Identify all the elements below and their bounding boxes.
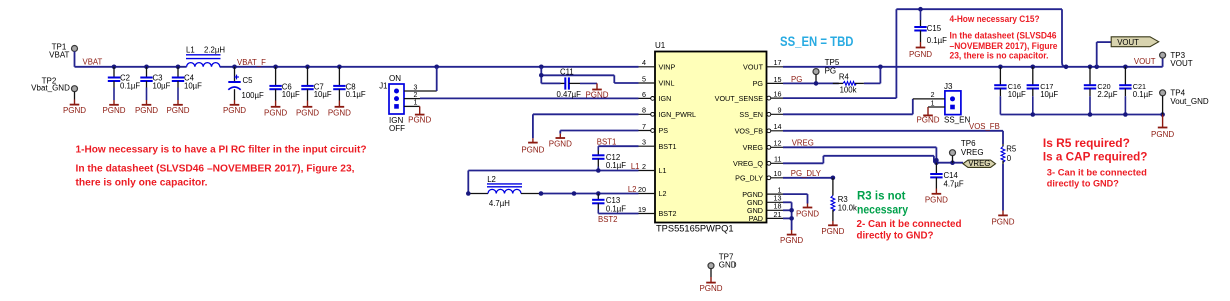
wire VBAT bus <box>75 66 639 68</box>
wire VOUT rail <box>783 66 1163 68</box>
resistor R4 100k <box>833 73 864 95</box>
svg-text:PGND: PGND <box>780 236 803 245</box>
svg-text:R5: R5 <box>1006 145 1017 154</box>
pin 16 VOUT_SENSE of U1 <box>715 90 783 103</box>
resistor R3 10.0k <box>831 178 857 221</box>
svg-text:In the datasheet (SLVSD46: In the datasheet (SLVSD46 <box>950 30 1057 41</box>
ground PGND (U1 pin1) <box>796 204 819 219</box>
svg-text:R3: R3 <box>838 195 848 204</box>
svg-text:VINL: VINL <box>659 79 675 88</box>
ground PGND (C11) <box>585 83 608 99</box>
ground PGND (C15) <box>909 42 932 59</box>
svg-text:L1: L1 <box>186 46 195 55</box>
svg-text:VREG: VREG <box>968 159 990 168</box>
note R5 questions <box>1043 137 1148 190</box>
svg-text:10: 10 <box>774 169 782 178</box>
capacitor C7 <box>301 67 332 101</box>
svg-text:Vout_GND: Vout_GND <box>1170 97 1208 106</box>
pin 17 VOUT of U1 <box>743 58 783 71</box>
svg-text:PGND: PGND <box>521 146 544 155</box>
wire VOS_FB net (U1 pin14) <box>783 122 1003 131</box>
svg-text:10µF: 10µF <box>282 90 300 99</box>
pin 14 VOS_FB of U1 <box>735 122 783 135</box>
wire U1 pin1 PGND <box>783 194 808 203</box>
pin 10 PG_DLY of U1 <box>735 169 783 182</box>
ground PGND (TP4) <box>1151 115 1174 139</box>
svg-text:L1: L1 <box>659 166 667 175</box>
resistor R5 0 <box>1001 131 1017 211</box>
svg-text:1: 1 <box>414 100 418 107</box>
svg-text:PG: PG <box>825 67 837 76</box>
svg-text:PGND: PGND <box>909 50 932 59</box>
pin 2 of J1 <box>404 92 420 99</box>
svg-text:2: 2 <box>642 162 646 171</box>
junction dots on L2 net <box>466 191 601 196</box>
test point TP6 <box>950 139 984 163</box>
svg-text:PG: PG <box>753 79 764 88</box>
svg-text:PS: PS <box>659 126 669 135</box>
inductor L1 2.2µH <box>186 46 225 67</box>
svg-text:BST2: BST2 <box>659 209 677 218</box>
svg-text:SS_EN: SS_EN <box>944 115 970 124</box>
svg-text:VBAT: VBAT <box>49 50 69 59</box>
svg-text:PGND: PGND <box>63 106 86 115</box>
note SS_EN = TBD <box>780 34 854 49</box>
wire PS (U1 pin7) <box>560 131 638 134</box>
svg-text:VOUT: VOUT <box>1117 38 1139 47</box>
net flag VREG <box>963 159 996 168</box>
svg-text:U1: U1 <box>655 41 666 50</box>
ground PGND (TP2) <box>63 100 86 116</box>
svg-text:C11: C11 <box>560 67 574 76</box>
wire TP1 to VBAT bus <box>74 51 76 67</box>
wire PG net (U1 pin15) <box>783 75 839 84</box>
connector J1 <box>379 74 405 133</box>
pin 7 PS of U1 <box>639 122 669 135</box>
svg-text:PG_DLY: PG_DLY <box>735 174 763 183</box>
svg-text:SS_EN: SS_EN <box>739 110 763 119</box>
capacitor C4 <box>172 67 202 100</box>
ground PGND (J1 pin1) <box>408 106 431 124</box>
svg-text:J3: J3 <box>944 82 953 91</box>
pin 6 IGN of U1 <box>639 90 672 103</box>
svg-text:SS_EN = TBD: SS_EN = TBD <box>780 34 854 49</box>
capacitor C15 0.1µF <box>914 9 947 45</box>
svg-text:ON: ON <box>389 74 401 83</box>
pin 4 VINP of U1 <box>639 58 676 71</box>
ground PGND (J3 pin1) <box>916 107 939 124</box>
svg-text:1-How necessary is to have a P: 1-How necessary is to have a PI RC filte… <box>76 144 367 155</box>
svg-text:R3 is not: R3 is not <box>857 189 906 203</box>
svg-text:PGND: PGND <box>699 284 722 293</box>
capacitor C21 0.1µF <box>1119 67 1153 115</box>
wire VREG net (U1 pin12) <box>783 138 936 162</box>
pin 2 of J3 <box>913 92 945 99</box>
svg-text:4.7µF: 4.7µF <box>944 179 964 188</box>
op-amp U1 TPS55165PWPQ1 (IC body) <box>655 41 767 233</box>
svg-text:VOUT: VOUT <box>1170 59 1192 68</box>
svg-text:TP6: TP6 <box>961 139 976 148</box>
svg-text:PGND: PGND <box>925 196 948 205</box>
svg-text:directly to GND?: directly to GND? <box>1047 179 1119 190</box>
svg-text:2- Can it be connected: 2- Can it be connected <box>857 219 962 230</box>
svg-text:VOS_FB: VOS_FB <box>969 122 1000 131</box>
svg-text:9: 9 <box>778 106 782 115</box>
pin 19 BST2 of U1 <box>638 205 676 218</box>
junction dots GND pins <box>789 208 794 221</box>
svg-text:PGND: PGND <box>585 90 608 99</box>
svg-text:Is R5 required?: Is R5 required? <box>1043 137 1130 150</box>
svg-text:VBAT: VBAT <box>83 58 103 67</box>
wire L2 net (U1 pin20) <box>541 185 639 194</box>
test point TP3 <box>1160 51 1193 68</box>
test point TP4 <box>1160 89 1209 115</box>
svg-text:100µF: 100µF <box>242 91 265 100</box>
svg-text:VOUT_SENSE: VOUT_SENSE <box>715 94 764 103</box>
test point TP7 <box>708 253 737 277</box>
capacitor C20 2.2µF <box>1084 67 1118 115</box>
svg-text:C5: C5 <box>243 76 254 85</box>
wire BST2 net (U1 pin19) <box>598 214 639 225</box>
pin 3 BST1 of U1 <box>639 138 677 151</box>
svg-text:PGND: PGND <box>102 106 125 115</box>
svg-text:PGND: PGND <box>796 209 819 218</box>
capacitor C8 <box>333 67 366 101</box>
svg-text:necessary: necessary <box>857 202 908 216</box>
svg-text:VBAT_F: VBAT_F <box>237 58 266 67</box>
svg-text:7: 7 <box>642 122 646 131</box>
capacitor C5 100µF (polarized) <box>228 67 264 100</box>
wire SS_EN net (U1 pin9) <box>783 99 913 114</box>
pin 1 of J1 <box>404 100 420 107</box>
wire R4 to VOUT <box>864 67 881 84</box>
svg-text:L2: L2 <box>659 189 667 198</box>
wire U1 GND/PAD pins (13,18,21) <box>783 202 792 230</box>
junction dots output ground rail <box>1031 112 1165 117</box>
svg-text:J1: J1 <box>379 82 387 91</box>
note 2 (R3 to GND) <box>857 219 962 242</box>
wire PG_DLY net (U1 pin10) <box>783 169 833 178</box>
pin 2 L1 of U1 <box>639 162 667 175</box>
svg-text:16: 16 <box>774 90 782 99</box>
svg-text:PGND: PGND <box>549 139 572 148</box>
svg-text:11: 11 <box>774 155 781 164</box>
svg-text:1: 1 <box>931 100 935 107</box>
svg-text:PGND: PGND <box>991 217 1014 226</box>
svg-text:4.7µH: 4.7µH <box>489 199 510 208</box>
svg-text:VREG: VREG <box>961 148 984 157</box>
svg-text:100k: 100k <box>840 85 857 94</box>
ground PGND (C7) <box>296 101 319 118</box>
wire output ground rail <box>1000 114 1162 116</box>
svg-text:PGND: PGND <box>916 115 939 124</box>
wire IGN net (J1 pin2 to U1 pin6) <box>420 97 639 99</box>
svg-text:20: 20 <box>638 185 646 194</box>
svg-text:3: 3 <box>414 84 418 91</box>
svg-text:IGN: IGN <box>659 94 672 103</box>
svg-text:10µF: 10µF <box>314 90 332 99</box>
svg-text:TP5: TP5 <box>825 58 840 67</box>
ground PGND (C4) <box>166 100 189 115</box>
ground PGND (TP7) <box>699 277 722 293</box>
capacitor C14 4.7µF <box>930 163 964 189</box>
wire BST1 net <box>597 138 639 147</box>
svg-text:21: 21 <box>774 210 782 219</box>
svg-text:4-How necessary C15?: 4-How necessary C15? <box>950 14 1040 25</box>
capacitor C16 10µF <box>994 67 1026 115</box>
ground PGND (C5) <box>223 100 246 115</box>
junction dots VREG node <box>934 158 955 165</box>
wire VOUT_SENSE (U1 pin16) <box>783 97 896 99</box>
svg-text:0: 0 <box>1007 154 1012 163</box>
svg-text:0.1µF: 0.1µF <box>606 204 626 213</box>
ground PGND (C6) <box>264 101 287 118</box>
node VOUT label <box>1134 57 1156 66</box>
wire VREG to flag <box>936 162 963 164</box>
svg-text:In the datasheet (SLVSD46 –NOV: In the datasheet (SLVSD46 –NOVEMBER 2017… <box>76 164 355 175</box>
svg-text:3: 3 <box>642 138 646 147</box>
svg-text:10.0k: 10.0k <box>838 204 857 213</box>
svg-text:0.1µF: 0.1µF <box>346 90 366 99</box>
svg-text:15: 15 <box>774 75 782 84</box>
test point TP2 <box>31 77 77 100</box>
svg-text:BST1: BST1 <box>597 138 617 147</box>
svg-text:0.1µF: 0.1µF <box>606 161 626 170</box>
svg-text:2.2µF: 2.2µF <box>1097 90 1117 99</box>
svg-text:0.1µF: 0.1µF <box>927 36 947 45</box>
svg-text:10µF: 10µF <box>1040 90 1058 99</box>
ground PGND (PS) <box>549 134 572 149</box>
svg-text:10µF: 10µF <box>184 82 202 91</box>
svg-text:PGND: PGND <box>408 116 431 125</box>
wire IGN_PWRL (U1 pin8) <box>533 114 639 138</box>
junction dots on VBAT bus <box>112 65 544 70</box>
svg-text:PGND: PGND <box>328 108 351 117</box>
net flag VOUT <box>1111 37 1159 47</box>
test point TP1 <box>49 43 77 60</box>
ground PGND (U1 GND/PAD) <box>780 230 803 245</box>
pin 18 GND of U1 <box>747 202 783 215</box>
svg-text:PG_DLY: PG_DLY <box>791 169 822 178</box>
node PG_DLY junction <box>831 176 836 181</box>
svg-text:19: 19 <box>638 205 646 214</box>
pin 1 PGND of U1 <box>742 186 783 199</box>
svg-text:PGND: PGND <box>223 106 246 115</box>
svg-text:2.2µH: 2.2µH <box>204 46 225 55</box>
capacitor C11 0.47µF <box>541 67 597 99</box>
svg-text:OFF: OFF <box>389 124 405 133</box>
svg-text:PGND: PGND <box>166 106 189 115</box>
svg-text:PGND: PGND <box>1151 130 1174 139</box>
pin 12 VREG of U1 <box>743 139 783 152</box>
note 4 (C15) <box>950 14 1058 62</box>
svg-text:PAD: PAD <box>749 214 763 223</box>
connector J3 <box>944 82 970 125</box>
svg-text:TPS55165PWPQ1: TPS55165PWPQ1 <box>656 224 734 234</box>
pin 20 L2 of U1 <box>638 185 667 198</box>
svg-text:C15: C15 <box>927 24 942 33</box>
capacitor C13 0.1µF <box>592 194 626 214</box>
svg-text:L2: L2 <box>628 185 637 194</box>
ground PGND (C2) <box>102 100 125 115</box>
svg-text:L1: L1 <box>631 162 640 171</box>
capacitor C6 <box>269 67 300 101</box>
ground PGND (C3) <box>135 100 158 115</box>
svg-text:IGN_PWRL: IGN_PWRL <box>659 110 697 119</box>
test point TP5 <box>813 58 840 84</box>
svg-text:Is a CAP required?: Is a CAP required? <box>1043 151 1148 164</box>
capacitor C17 10µF <box>1027 67 1059 115</box>
node TP5 junction <box>814 81 819 86</box>
wire VOUT upper loop (C15 branch) <box>896 9 1066 98</box>
pin 11 VREG_Q of U1 <box>733 155 783 168</box>
svg-text:10µF: 10µF <box>153 82 171 91</box>
svg-text:VOUT: VOUT <box>743 63 764 72</box>
pin 21 PAD of U1 <box>749 210 783 223</box>
svg-text:PGND: PGND <box>821 227 844 236</box>
wire VREG_Q net (U1 pin11) <box>783 156 934 164</box>
wire to VOUT flag <box>1097 42 1112 67</box>
wire VINL tap <box>541 67 638 84</box>
node VBAT label <box>83 58 103 67</box>
svg-text:23, there is no capacitor.: 23, there is no capacitor. <box>950 50 1049 61</box>
svg-text:R4: R4 <box>839 73 850 82</box>
svg-text:directly to GND?: directly to GND? <box>857 231 934 242</box>
pin 9 SS_EN of U1 <box>739 106 783 119</box>
svg-text:VOUT: VOUT <box>1134 57 1156 66</box>
pin 5 VINL of U1 <box>639 74 675 87</box>
svg-text:0.1µF: 0.1µF <box>120 82 140 91</box>
svg-text:4: 4 <box>642 58 646 67</box>
node VBAT_F label <box>237 58 266 67</box>
svg-text:5: 5 <box>642 74 646 83</box>
svg-text:3- Can it be connected: 3- Can it be connected <box>1047 167 1147 178</box>
svg-text:BST1: BST1 <box>659 142 677 151</box>
inductor L2 4.7µH <box>468 175 541 208</box>
svg-text:L2: L2 <box>487 175 496 184</box>
ground PGND (C8) <box>328 101 351 118</box>
pin 15 PG of U1 <box>753 75 783 88</box>
svg-text:14: 14 <box>774 122 782 131</box>
svg-text:PG: PG <box>791 75 802 84</box>
ground PGND (R3) <box>821 221 844 236</box>
pin 13 GND of U1 <box>747 194 783 207</box>
svg-text:there is only one capacitor.: there is only one capacitor. <box>76 178 208 189</box>
svg-text:8: 8 <box>642 106 646 115</box>
svg-text:10µF: 10µF <box>1008 90 1026 99</box>
svg-text:12: 12 <box>774 139 782 148</box>
svg-text:VREG: VREG <box>792 138 814 147</box>
capacitor C12 0.1µF <box>592 146 626 170</box>
note 1 (input PI RC filter) <box>76 144 367 188</box>
pin 3 of J1 <box>404 84 437 91</box>
svg-text:Vbat_GND: Vbat_GND <box>31 84 70 93</box>
svg-text:BST2: BST2 <box>598 215 618 224</box>
svg-text:VINP: VINP <box>659 63 676 72</box>
ground PGND (IGN_PWRL) <box>521 138 544 154</box>
wire J1 pin3 to VBAT_F <box>436 67 438 91</box>
junction C12 bottom on L1 net <box>596 168 601 173</box>
svg-text:2: 2 <box>414 92 418 99</box>
svg-text:VREG_Q: VREG_Q <box>733 159 763 168</box>
capacitor C3 <box>140 67 170 100</box>
note R3 green <box>857 189 908 217</box>
capacitor C2 <box>108 67 141 100</box>
ground PGND (C14) <box>925 189 948 205</box>
svg-text:0.47µF: 0.47µF <box>557 90 582 99</box>
ground PGND (R5) <box>991 211 1014 227</box>
svg-text:PGND: PGND <box>264 108 287 117</box>
svg-text:17: 17 <box>774 58 782 67</box>
svg-text:VOS_FB: VOS_FB <box>735 127 764 136</box>
svg-text:0.1µF: 0.1µF <box>1133 90 1153 99</box>
svg-text:PGND: PGND <box>135 106 158 115</box>
svg-text:2: 2 <box>931 92 935 99</box>
svg-text:6: 6 <box>642 90 646 99</box>
junction dots VINL tap <box>539 73 544 78</box>
svg-text:VREG: VREG <box>743 143 764 152</box>
wire L1 net (U1 pin2) <box>468 162 639 193</box>
pin 8 IGN_PWRL of U1 <box>639 106 697 119</box>
svg-text:PGND: PGND <box>296 108 319 117</box>
junction dots VOUT rail <box>878 7 1128 69</box>
pin 1 of J3 <box>928 100 945 107</box>
